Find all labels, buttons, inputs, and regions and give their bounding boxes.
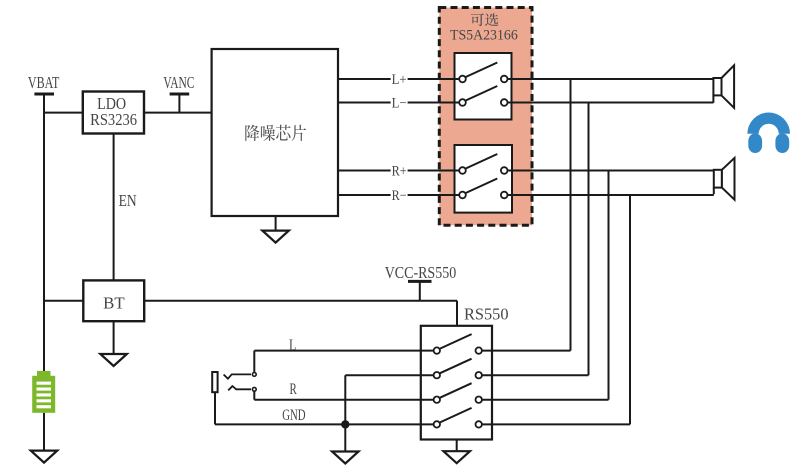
svg-text:RS550: RS550 bbox=[464, 305, 509, 324]
svg-text:R+: R+ bbox=[392, 164, 407, 180]
svg-text:R: R bbox=[290, 381, 298, 398]
svg-text:L: L bbox=[289, 337, 296, 354]
svg-text:R−: R− bbox=[392, 188, 407, 204]
svg-text:TS5A23166: TS5A23166 bbox=[450, 28, 518, 44]
svg-text:BT: BT bbox=[103, 294, 125, 313]
svg-text:RS3236: RS3236 bbox=[90, 110, 137, 129]
svg-text:L−: L− bbox=[392, 96, 407, 112]
svg-text:VCC-RS550: VCC-RS550 bbox=[385, 263, 457, 282]
svg-text:VBAT: VBAT bbox=[28, 73, 60, 92]
svg-text:EN: EN bbox=[119, 191, 137, 210]
svg-text:GND: GND bbox=[282, 407, 305, 424]
svg-text:VANC: VANC bbox=[163, 73, 194, 92]
svg-text:L+: L+ bbox=[392, 72, 407, 88]
